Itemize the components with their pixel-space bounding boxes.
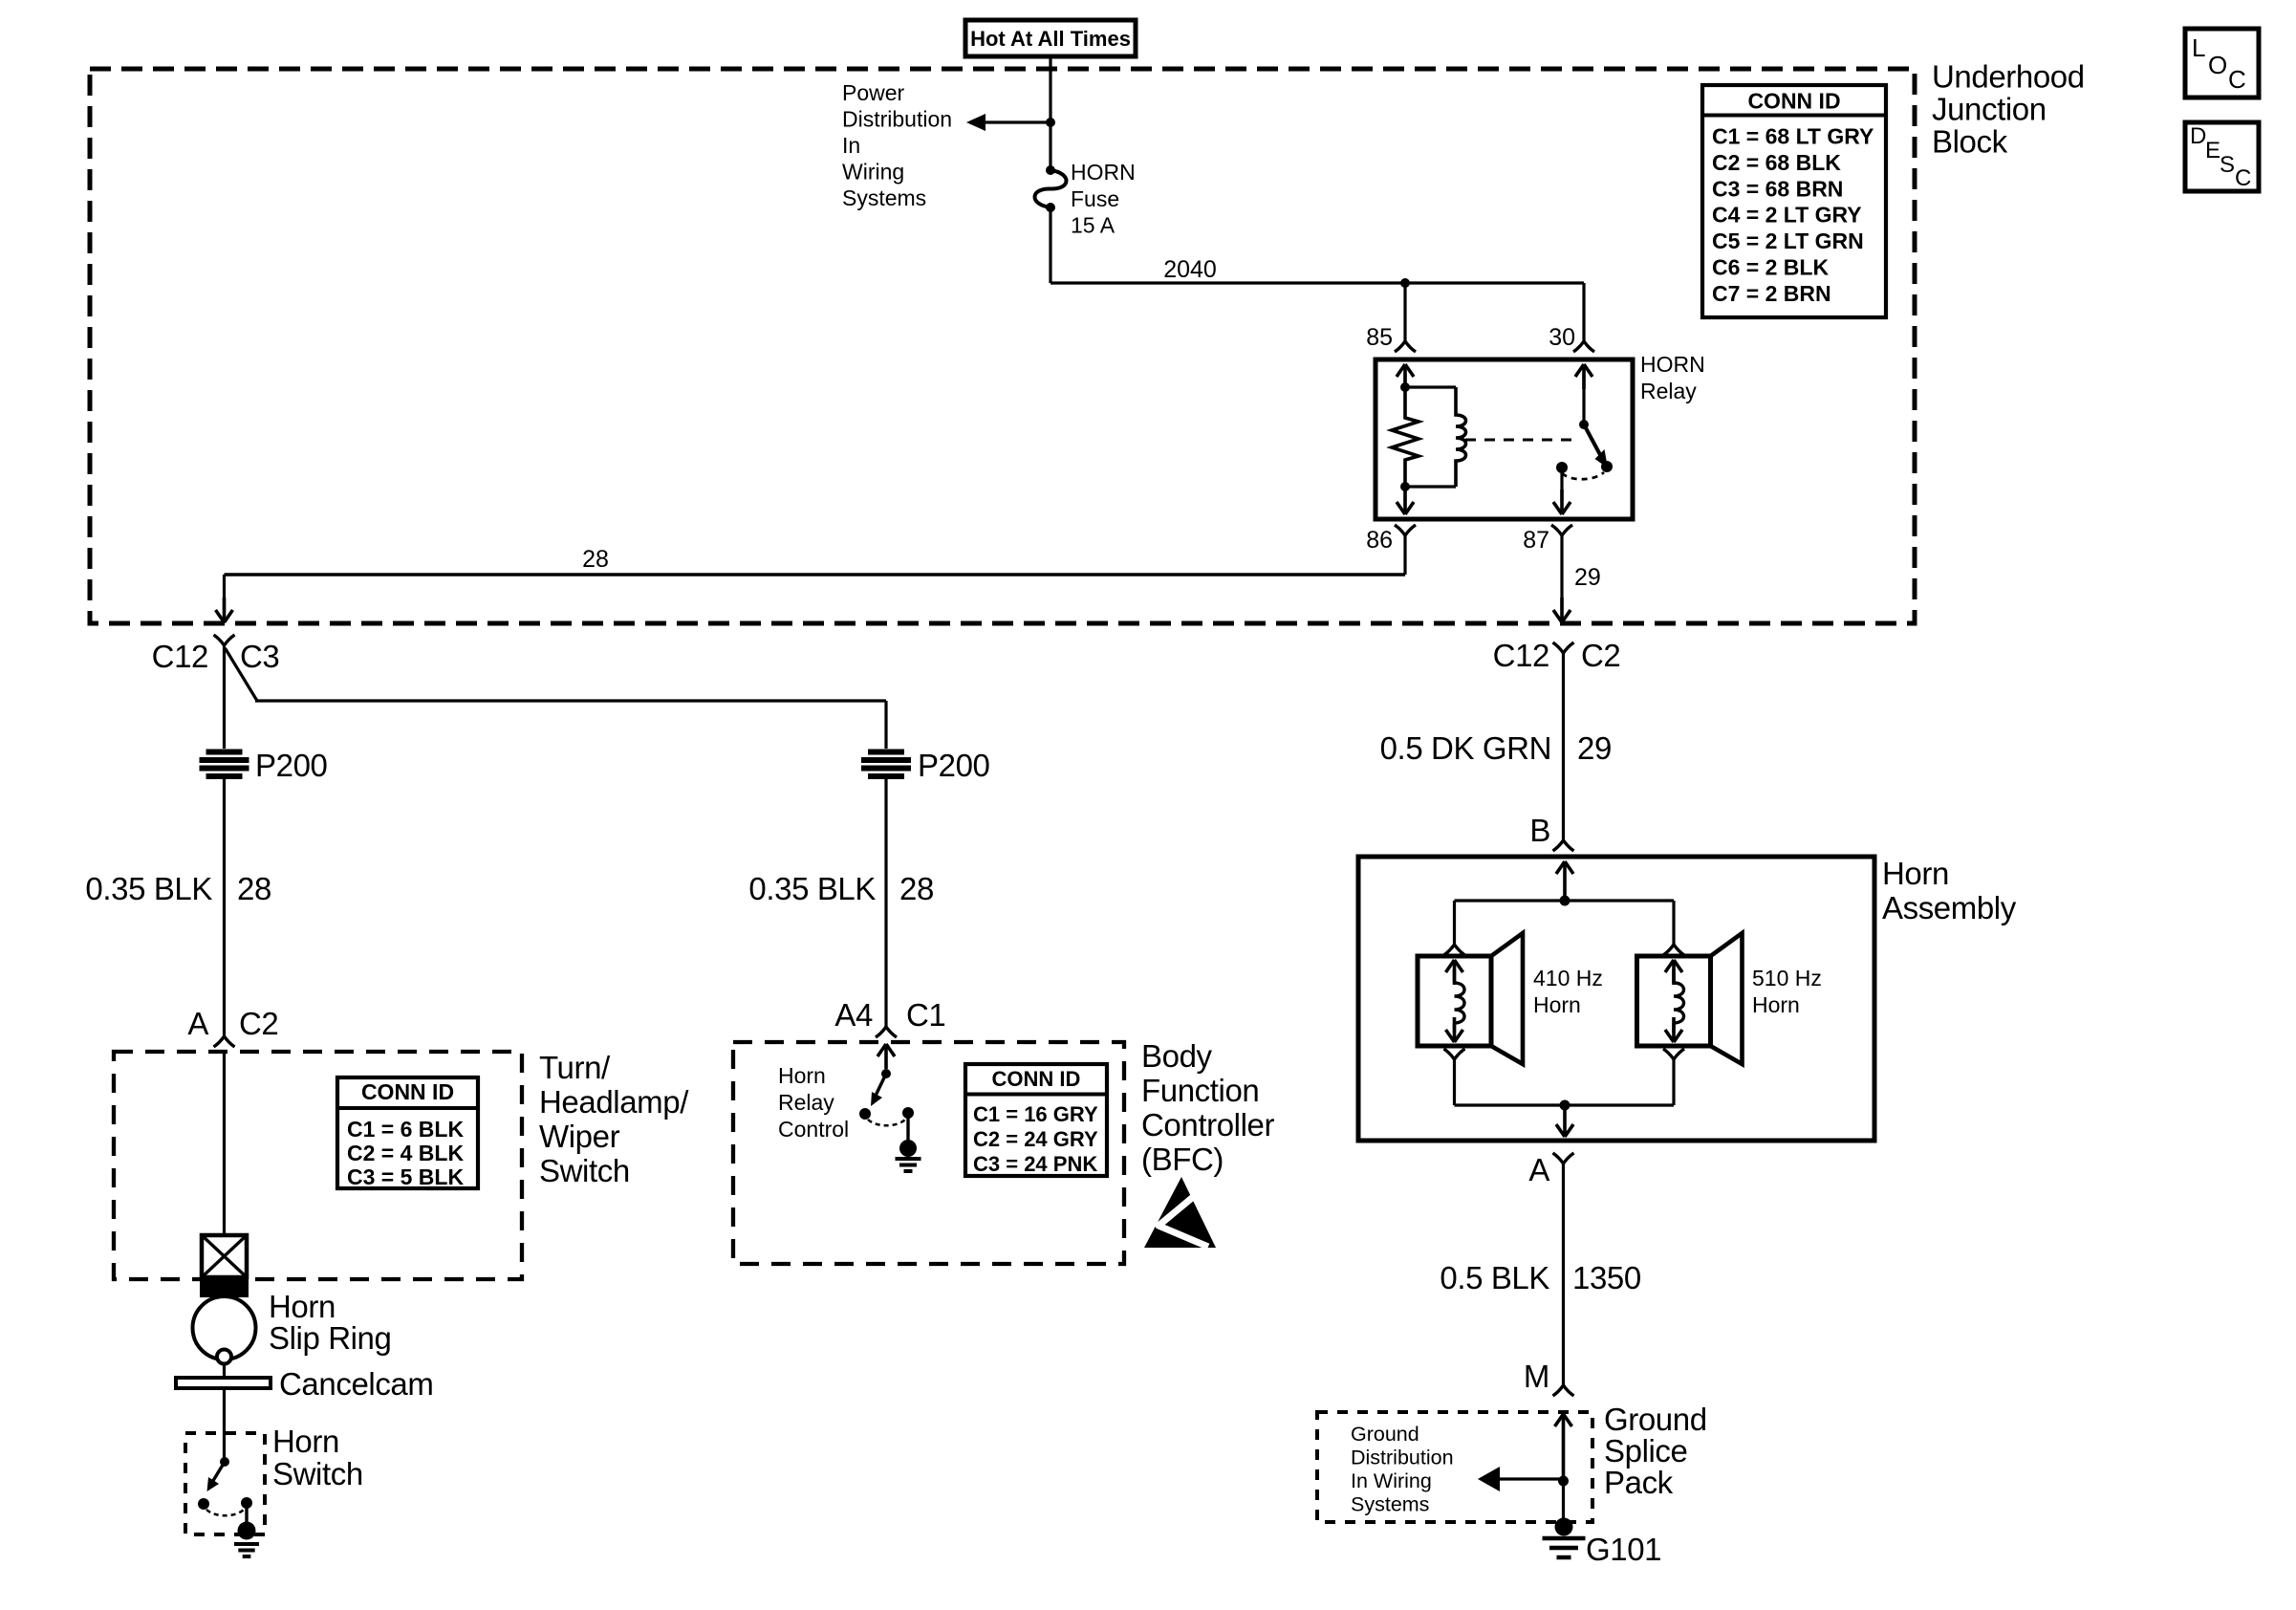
svg-text:Assembly: Assembly xyxy=(1882,890,2017,925)
svg-text:C12: C12 xyxy=(152,639,208,674)
svg-text:0.5 BLK: 0.5 BLK xyxy=(1440,1260,1549,1295)
svg-text:85: 85 xyxy=(1366,324,1393,351)
svg-text:(BFC): (BFC) xyxy=(1141,1142,1224,1177)
svg-text:Switch: Switch xyxy=(539,1153,630,1188)
svg-text:C1 = 16 GRY: C1 = 16 GRY xyxy=(973,1102,1098,1126)
svg-text:C3: C3 xyxy=(240,639,279,674)
svg-text:S: S xyxy=(2220,152,2235,178)
svg-text:C: C xyxy=(2235,165,2251,191)
svg-text:Cancelcam: Cancelcam xyxy=(279,1366,433,1402)
svg-text:C3 = 24 PNK: C3 = 24 PNK xyxy=(973,1152,1097,1176)
svg-text:CONN ID: CONN ID xyxy=(1747,89,1840,114)
svg-text:C6 = 2 BLK: C6 = 2 BLK xyxy=(1712,255,1829,280)
svg-text:O: O xyxy=(2208,51,2227,79)
svg-text:HORN: HORN xyxy=(1071,160,1136,185)
svg-text:Horn: Horn xyxy=(269,1289,336,1324)
svg-text:C2 = 4 BLK: C2 = 4 BLK xyxy=(347,1141,464,1165)
svg-text:Controller: Controller xyxy=(1141,1107,1274,1142)
svg-text:C4 = 2 LT GRY: C4 = 2 LT GRY xyxy=(1712,203,1862,228)
svg-text:29: 29 xyxy=(1574,564,1601,591)
svg-text:C5 = 2 LT GRN: C5 = 2 LT GRN xyxy=(1712,228,1864,253)
svg-text:Horn: Horn xyxy=(778,1063,826,1088)
svg-text:C: C xyxy=(2228,65,2246,94)
svg-text:C12: C12 xyxy=(1493,638,1549,673)
svg-text:Underhood: Underhood xyxy=(1932,59,2085,95)
svg-text:Relay: Relay xyxy=(778,1090,834,1115)
svg-text:Distribution: Distribution xyxy=(842,107,952,132)
svg-text:Fuse: Fuse xyxy=(1071,186,1119,211)
svg-text:E: E xyxy=(2205,138,2220,163)
svg-text:Horn: Horn xyxy=(1882,856,1949,891)
svg-text:28: 28 xyxy=(237,871,271,906)
svg-text:D: D xyxy=(2190,123,2206,149)
svg-text:86: 86 xyxy=(1366,527,1393,554)
svg-text:Distribution: Distribution xyxy=(1351,1447,1454,1469)
svg-text:28: 28 xyxy=(899,871,934,906)
svg-text:A: A xyxy=(1528,1152,1549,1187)
svg-text:Relay: Relay xyxy=(1640,379,1697,403)
svg-text:1350: 1350 xyxy=(1572,1260,1641,1295)
svg-text:C3 = 5 BLK: C3 = 5 BLK xyxy=(347,1164,464,1189)
svg-text:In: In xyxy=(842,133,860,158)
svg-text:L: L xyxy=(2192,33,2205,62)
svg-text:Junction: Junction xyxy=(1932,92,2047,127)
svg-text:In Wiring: In Wiring xyxy=(1351,1469,1432,1492)
svg-text:Function: Function xyxy=(1141,1073,1259,1108)
svg-text:CONN ID: CONN ID xyxy=(992,1067,1081,1091)
svg-text:P200: P200 xyxy=(918,748,990,783)
svg-text:Turn/: Turn/ xyxy=(539,1050,611,1085)
svg-text:C2 = 68 BLK: C2 = 68 BLK xyxy=(1712,150,1841,175)
svg-text:C2: C2 xyxy=(239,1006,278,1041)
svg-text:Body: Body xyxy=(1141,1038,1213,1074)
svg-text:C7 = 2 BRN: C7 = 2 BRN xyxy=(1712,281,1831,306)
svg-text:Splice: Splice xyxy=(1604,1433,1687,1469)
svg-text:Headlamp/: Headlamp/ xyxy=(539,1084,689,1120)
svg-text:30: 30 xyxy=(1549,324,1575,351)
svg-text:Switch: Switch xyxy=(272,1456,363,1491)
svg-text:Block: Block xyxy=(1932,124,2008,160)
svg-text:C1 = 68 LT GRY: C1 = 68 LT GRY xyxy=(1712,124,1874,149)
svg-text:C1 = 6 BLK: C1 = 6 BLK xyxy=(347,1117,464,1142)
svg-text:Systems: Systems xyxy=(1351,1493,1429,1516)
svg-text:410 Hz: 410 Hz xyxy=(1533,966,1603,990)
svg-text:28: 28 xyxy=(582,546,609,573)
svg-text:G101: G101 xyxy=(1586,1532,1661,1567)
svg-text:Hot At All Times: Hot At All Times xyxy=(970,27,1131,51)
svg-text:HORN: HORN xyxy=(1640,352,1705,377)
svg-text:Ground: Ground xyxy=(1351,1423,1419,1446)
svg-text:Pack: Pack xyxy=(1604,1465,1674,1500)
svg-text:Power: Power xyxy=(842,80,905,105)
svg-text:C1: C1 xyxy=(906,997,945,1033)
svg-text:0.35 BLK: 0.35 BLK xyxy=(748,871,876,906)
svg-text:Ground: Ground xyxy=(1604,1402,1707,1437)
svg-text:Control: Control xyxy=(778,1117,849,1142)
svg-text:Slip Ring: Slip Ring xyxy=(269,1320,391,1356)
svg-text:Horn: Horn xyxy=(1752,992,1800,1017)
svg-text:A4: A4 xyxy=(834,997,873,1033)
svg-text:C3 = 68 BRN: C3 = 68 BRN xyxy=(1712,176,1843,201)
svg-text:Systems: Systems xyxy=(842,185,926,210)
svg-text:510 Hz: 510 Hz xyxy=(1752,966,1822,990)
svg-text:P200: P200 xyxy=(255,748,328,783)
svg-text:C2 = 24 GRY: C2 = 24 GRY xyxy=(973,1127,1098,1151)
svg-text:Horn: Horn xyxy=(1533,992,1581,1017)
svg-text:C2: C2 xyxy=(1581,638,1620,673)
svg-text:Horn: Horn xyxy=(272,1424,339,1459)
svg-text:0.5 DK GRN: 0.5 DK GRN xyxy=(1380,730,1551,766)
svg-text:15 A: 15 A xyxy=(1071,213,1116,238)
svg-text:A: A xyxy=(187,1006,208,1041)
svg-text:0.35 BLK: 0.35 BLK xyxy=(85,871,212,906)
svg-text:87: 87 xyxy=(1523,527,1549,554)
svg-text:M: M xyxy=(1524,1359,1549,1394)
svg-text:Wiper: Wiper xyxy=(539,1119,620,1154)
svg-text:B: B xyxy=(1529,813,1550,848)
svg-text:Wiring: Wiring xyxy=(842,160,904,185)
svg-text:CONN ID: CONN ID xyxy=(361,1079,454,1104)
svg-text:29: 29 xyxy=(1577,730,1612,766)
svg-text:2040: 2040 xyxy=(1163,256,1217,283)
